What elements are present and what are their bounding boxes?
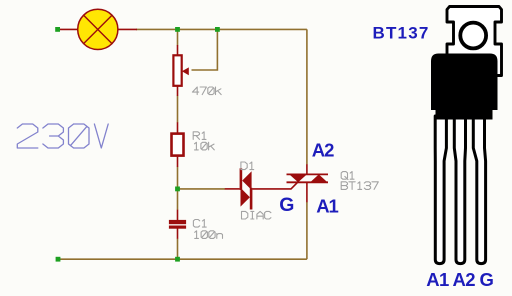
pot bottom pin xyxy=(177,86,179,96)
diac D1 right bar xyxy=(250,188,253,210)
TO-220 right leg xyxy=(473,116,485,264)
node left bottom xyxy=(56,257,61,262)
svg-text:A1: A1 xyxy=(316,196,338,217)
label 230V xyxy=(17,124,108,148)
diac D1 left bar xyxy=(240,168,243,190)
triac A2 pin xyxy=(306,164,308,174)
R1 top pin xyxy=(177,122,179,132)
diac D1 lower triangle xyxy=(241,188,250,207)
svg-text:A1 A2 G: A1 A2 G xyxy=(426,269,493,290)
wire R1 bottom to gate node xyxy=(177,167,179,189)
resistor R1 body xyxy=(172,134,184,156)
TO-220 pedestal xyxy=(436,108,493,120)
node bottom junction xyxy=(175,257,180,262)
svg-text:A2: A2 xyxy=(312,140,334,161)
lamp right pin xyxy=(118,28,137,30)
wire C1 bottom to bottom net xyxy=(177,239,179,260)
R1 bottom pin xyxy=(177,157,179,167)
label BT137 gray xyxy=(341,182,378,190)
node junction 2 xyxy=(215,27,220,32)
potentiometer body xyxy=(173,55,181,86)
TO-220 tab xyxy=(447,7,502,76)
label 100n xyxy=(195,231,223,239)
wire top horizontal net xyxy=(136,28,307,30)
wire gate node down to C1 xyxy=(177,189,179,210)
triac Q1 top bar xyxy=(287,173,329,175)
label 10k xyxy=(195,142,215,150)
node gate junction xyxy=(175,187,180,192)
triac Q1 right triangle xyxy=(310,174,327,182)
label C1 xyxy=(193,220,206,228)
triac Q1 left triangle xyxy=(289,174,307,182)
C1 top pin xyxy=(177,210,179,220)
wire triac A1 down to bottom net xyxy=(306,202,308,259)
diac D1 upper triangle xyxy=(242,171,251,190)
wire right vertical to triac A2 xyxy=(306,29,308,164)
wire bottom horizontal net xyxy=(58,258,307,260)
pot top pin xyxy=(177,45,179,56)
node junction 1 xyxy=(175,27,180,32)
label DIAC xyxy=(242,211,271,219)
wire pot bottom to R1 top xyxy=(177,96,179,123)
label R1 xyxy=(193,132,206,140)
triac Q1 bottom bar xyxy=(287,181,329,183)
TO-220 middle leg xyxy=(454,116,465,264)
wire gate node to diac xyxy=(178,188,226,190)
potentiometer wiper arrow xyxy=(182,67,189,75)
TO-220 body xyxy=(431,54,498,111)
wire node2 down and left to pot wiper xyxy=(192,29,218,70)
node left top xyxy=(55,27,60,32)
svg-text:BT137: BT137 xyxy=(373,23,430,42)
label Q1 xyxy=(341,172,354,180)
diac right pin / triac gate wire xyxy=(252,182,297,189)
C1 bottom pin xyxy=(177,228,179,238)
diac left pin xyxy=(225,188,240,190)
triac A1 pin xyxy=(306,182,308,202)
lamp cross xyxy=(84,15,112,43)
TO-220 tab hole xyxy=(460,23,486,49)
label D1 xyxy=(241,162,254,170)
lamp LA1 circle xyxy=(78,9,118,49)
svg-text:G: G xyxy=(279,194,294,216)
capacitor C1 plates xyxy=(169,220,186,224)
TO-220 left leg xyxy=(435,116,446,264)
wire node1 down to potentiometer xyxy=(177,29,179,45)
lamp left pin xyxy=(59,28,78,30)
label 470k xyxy=(192,87,221,95)
